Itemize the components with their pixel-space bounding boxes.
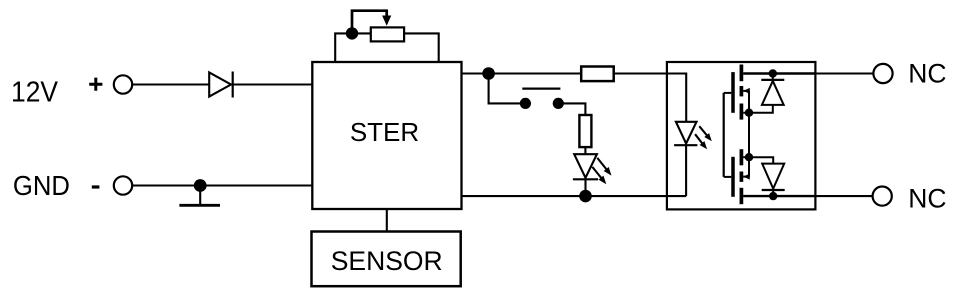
junction LED1 to bottom rail (579, 190, 592, 203)
wire diode to STER (233, 83, 312, 85)
wire R2 to LED1 (584, 147, 586, 154)
junction on GND wire (194, 179, 207, 192)
resistor R2 vertical (579, 115, 591, 147)
wire STER to SENSOR (386, 209, 388, 232)
svg-text:NC: NC (908, 59, 946, 89)
Q1 drain rail (743, 72, 815, 74)
svg-text:GND: GND (13, 170, 70, 201)
block STER (312, 62, 461, 209)
potentiometer P1 body (371, 27, 404, 41)
LED D4 emission arrows (592, 158, 611, 184)
wire Q2 drain to diode D3 (749, 157, 773, 163)
Q2 source rail (743, 195, 815, 197)
wire Q1 source to Q2 drain (748, 113, 750, 158)
MOSFET Q1 (724, 65, 750, 120)
body diode D2 (761, 74, 784, 105)
resistor R1 horizontal (581, 67, 614, 82)
wire STER to node A (461, 72, 581, 74)
optocoupler LED emission arrows (695, 126, 712, 149)
wire node A down to switch (489, 74, 520, 104)
terminal NC top (873, 64, 892, 83)
junction D2 cathode on rail (769, 69, 777, 77)
wire switch to resistor R2 (562, 103, 585, 115)
terminal GND (114, 176, 132, 194)
gate bus (723, 93, 725, 177)
wire R1 to optocoupler LED feed (614, 74, 686, 122)
svg-text:SENSOR: SENSOR (331, 246, 443, 276)
optocoupler LED (674, 122, 697, 196)
wire pot left leg (335, 33, 370, 61)
ground (179, 186, 220, 206)
polarity + (89, 78, 102, 91)
switch S1 (520, 89, 564, 109)
MOSFET Q2 (724, 149, 750, 204)
optocoupler U1 box (667, 62, 816, 209)
wire pot right leg (405, 33, 439, 61)
LED D4 indicator (573, 154, 598, 196)
body diode D3 (762, 164, 785, 197)
svg-text:STER: STER (350, 117, 419, 147)
wiper feedback arrow (352, 11, 391, 32)
wire 12V terminal to diode (132, 83, 209, 85)
Q1 source to diode D2 node (749, 105, 773, 113)
terminal NC bottom (873, 187, 892, 206)
block SENSOR (312, 232, 461, 287)
terminal 12V (114, 75, 132, 93)
wire top NC (815, 72, 873, 74)
wire bottom rail STER to optocoupler (461, 195, 686, 197)
node A junction (482, 67, 495, 80)
junction D3 cathode on rail (769, 192, 777, 200)
junction Q1 source (745, 109, 753, 117)
wire bottom NC (815, 195, 872, 197)
junction Q2 drain (745, 153, 753, 161)
svg-text:NC: NC (908, 184, 946, 214)
svg-text:12V: 12V (11, 77, 58, 109)
junction pot wiper node (346, 27, 358, 39)
polarity - (92, 185, 100, 188)
wire GND terminal to STER (132, 184, 312, 186)
diode D1 (209, 72, 233, 98)
